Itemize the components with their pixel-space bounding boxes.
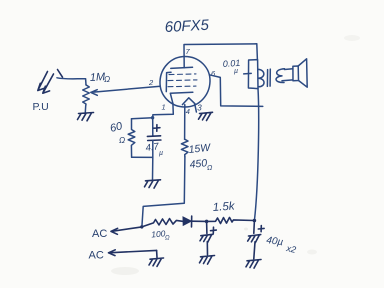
svg-text:µ: µ [234,68,238,75]
AC line 2 arrow [109,250,157,256]
wire P.U to pot [57,78,86,85]
ground under cathode RC [145,180,161,188]
svg-text:Ω: Ω [165,236,170,242]
wire cathode RC top [132,118,153,119]
capacitor C3 40u wire [206,221,208,233]
speaker LS1 horn [298,59,307,87]
ground under C3 [200,256,215,265]
capacitor C1 0.01u box [248,60,258,89]
capacitor C2 4.7u wire [152,118,154,136]
capacitor C2 plus [154,125,160,132]
tube grid dashes row 3 [168,85,196,88]
resistor R2 60 ohm [128,119,135,157]
tube grid dashes row 2 [168,79,197,82]
capacitor C4 plates [248,235,261,243]
svg-text:Ω: Ω [207,165,213,172]
svg-text:P.U: P.U [33,101,49,113]
wire cathode pin1 down-left [153,103,174,117]
wire screen pin6 to B+ [209,75,262,107]
transformer T1 core [267,69,270,86]
wire plate to transformer (top wire) [184,44,257,68]
ground under pin 3 [199,112,213,120]
svg-text:1: 1 [162,103,166,112]
svg-text:60FX5: 60FX5 [164,17,210,36]
ground under C4 [246,260,261,269]
transformer T1 secondary [276,69,284,83]
wire B+ rail [254,89,258,221]
input P.U arrow 2 [43,74,54,93]
svg-text:x2: x2 [285,243,297,255]
svg-text:1.5k: 1.5k [212,200,236,214]
svg-text:15W: 15W [188,142,212,156]
svg-text:100: 100 [151,228,166,239]
ground under pot [78,113,94,121]
tube plate [171,67,193,68]
input P.U arrow 1 [38,72,48,91]
junction filter node 2 [253,219,257,223]
tube grid bar [166,72,171,91]
transformer T1 primary bumps [258,69,264,86]
label 0.01u [222,58,240,75]
capacitor C3 plus [211,227,217,233]
label 1M [90,71,111,84]
svg-text:Ω: Ω [119,136,125,145]
capacitor C2 lower wire [152,140,154,157]
tube V1 envelope [160,57,210,108]
wire heater pin4 down [184,105,186,140]
wire secondary to speaker [282,69,293,81]
AC line 1 arrow [111,227,142,234]
svg-text:AC: AC [92,228,107,240]
wire diode to filter [192,220,207,222]
wire cathode RC bottom [132,157,153,180]
label 450 ohm [189,157,213,172]
wire AC2 to ground [156,250,158,257]
svg-text:4: 4 [186,107,190,116]
capacitor C1 plate tick [244,72,252,75]
capacitor C4 40u wire [253,221,256,234]
resistor R4 100 ohm [142,219,183,227]
svg-text:2: 2 [148,78,154,87]
svg-text:450: 450 [189,157,208,171]
resistor R3 15W 450 ohm [181,139,188,157]
junction filter node 1 [205,220,209,224]
tube grid dashes row 1 [169,73,196,76]
pot wiper arrow and wire to grid pin2 [91,86,161,95]
label 60 ohm [109,120,125,145]
capacitor C3 plates [200,234,213,242]
svg-text:4.7: 4.7 [145,141,160,154]
svg-text:Ω: Ω [104,75,110,84]
tube cathode [170,92,193,103]
capacitor C4 lower wire [254,242,255,259]
resistor R5 1.5k [207,217,255,223]
ground AC2 [149,258,164,266]
input P.U tick [58,70,63,78]
svg-text:AC: AC [89,250,104,262]
speaker LS1 frame [293,66,299,81]
svg-text:3: 3 [197,104,202,113]
capacitor C2 plates [147,136,161,141]
wire pin3 to ground [195,104,197,112]
tube heater [182,98,195,105]
label 4.7u [145,141,163,157]
capacitor C3 lower wire [206,242,208,255]
label 100 ohm [151,228,170,241]
junction cathode node [151,116,154,119]
diode D1 [183,217,191,225]
potentiometer R1 1M element [83,85,90,112]
junction AC heater tap [140,225,143,228]
svg-text:µ: µ [159,150,163,157]
label 40u x2 [266,235,297,255]
capacitor C4 plus [258,226,264,232]
wire R3 to AC junction [142,157,185,227]
